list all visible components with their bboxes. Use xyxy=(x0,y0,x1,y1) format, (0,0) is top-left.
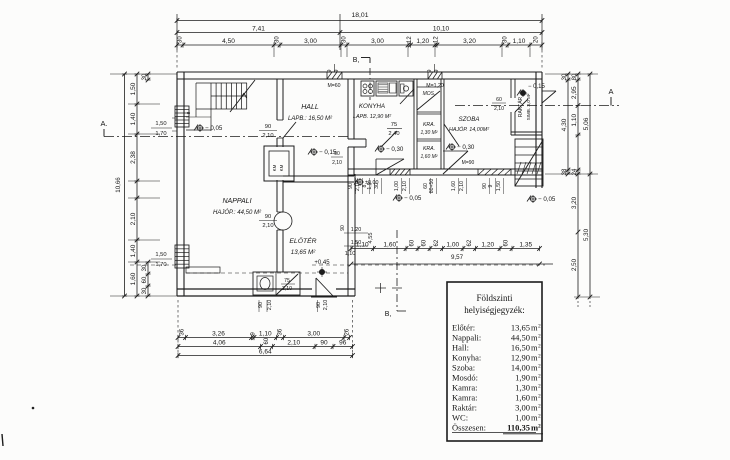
svg-text:2,38: 2,38 xyxy=(130,151,137,164)
svg-text:M=60: M=60 xyxy=(327,83,340,89)
svg-text:3,26: 3,26 xyxy=(212,330,225,337)
svg-text:12: 12 xyxy=(407,36,413,43)
svg-text:60: 60 xyxy=(410,239,416,246)
svg-text:1,20: 1,20 xyxy=(351,227,362,233)
svg-text:1,10: 1,10 xyxy=(345,251,356,257)
svg-text:9: 9 xyxy=(488,184,494,187)
svg-text:NAPPALI: NAPPALI xyxy=(222,198,251,205)
svg-text:2,10: 2,10 xyxy=(402,181,408,191)
svg-text:Hall:: Hall: xyxy=(452,343,469,353)
svg-text:m: m xyxy=(531,323,538,333)
svg-text:Szoba:: Szoba: xyxy=(452,363,475,373)
svg-text:3,00: 3,00 xyxy=(307,330,320,337)
svg-text:2: 2 xyxy=(538,354,541,360)
svg-text:2: 2 xyxy=(538,344,541,350)
svg-text:2: 2 xyxy=(538,334,541,340)
svg-text:10,66: 10,66 xyxy=(115,177,122,193)
svg-text:90: 90 xyxy=(320,339,328,346)
svg-text:B,: B, xyxy=(385,311,392,318)
svg-text:2,10: 2,10 xyxy=(267,300,273,311)
svg-text:2,10: 2,10 xyxy=(262,133,273,139)
svg-text:A: A xyxy=(608,87,613,96)
svg-text:RAKTÁR: RAKTÁR xyxy=(517,96,524,117)
svg-text:1,00: 1,00 xyxy=(446,241,459,248)
svg-text:MOS.: MOS. xyxy=(423,91,436,97)
svg-text:14,00: 14,00 xyxy=(511,363,530,373)
svg-text:36: 36 xyxy=(179,328,185,335)
svg-text:7,41: 7,41 xyxy=(252,25,265,32)
svg-text:4,30: 4,30 xyxy=(561,118,568,131)
svg-text:13,65: 13,65 xyxy=(511,323,530,333)
svg-text:ELŐTÉR: ELŐTÉR xyxy=(289,236,316,245)
svg-text:2,10: 2,10 xyxy=(494,106,504,112)
svg-text:1,10: 1,10 xyxy=(571,114,578,127)
svg-text:2,40: 2,40 xyxy=(388,131,399,137)
svg-text:30: 30 xyxy=(342,36,348,43)
svg-text:1,40: 1,40 xyxy=(130,244,137,257)
svg-text:30: 30 xyxy=(374,183,380,189)
svg-text:Földszinti: Földszinti xyxy=(476,293,513,303)
svg-text:4,06: 4,06 xyxy=(213,339,226,346)
svg-text:3,20: 3,20 xyxy=(463,38,476,45)
svg-text:2,10: 2,10 xyxy=(287,339,300,346)
svg-text:30: 30 xyxy=(142,287,148,294)
svg-text:30: 30 xyxy=(178,36,184,43)
svg-text:60: 60 xyxy=(422,239,428,246)
svg-text:B,: B, xyxy=(353,57,360,64)
svg-text:110,35: 110,35 xyxy=(507,423,530,433)
svg-text:96: 96 xyxy=(339,339,347,346)
svg-text:12,90: 12,90 xyxy=(511,353,530,363)
svg-text:3,00: 3,00 xyxy=(304,38,317,45)
svg-text:30: 30 xyxy=(503,36,509,43)
svg-text:62: 62 xyxy=(467,239,473,246)
svg-text:1,50: 1,50 xyxy=(496,181,502,191)
svg-text:1,60: 1,60 xyxy=(451,181,457,191)
svg-text:1,90: 1,90 xyxy=(515,373,530,383)
svg-text:− 0,05: − 0,05 xyxy=(538,196,556,203)
svg-text:2,10: 2,10 xyxy=(282,286,292,292)
svg-text:4,55: 4,55 xyxy=(368,233,374,244)
svg-text:60: 60 xyxy=(504,239,510,246)
svg-text:1,70: 1,70 xyxy=(155,131,166,137)
svg-text:M=1,20: M=1,20 xyxy=(426,83,444,89)
svg-text:Előtér:: Előtér: xyxy=(452,323,475,333)
svg-text:1,50: 1,50 xyxy=(155,121,166,127)
svg-text:m: m xyxy=(531,413,538,423)
svg-text:2: 2 xyxy=(538,394,541,400)
svg-text:1,9: 1,9 xyxy=(367,182,373,189)
svg-text:1,35: 1,35 xyxy=(519,241,532,248)
svg-text:Mosdó:: Mosdó: xyxy=(452,373,478,383)
svg-text:1,10: 1,10 xyxy=(356,241,369,248)
svg-text:1,50: 1,50 xyxy=(130,82,137,95)
svg-text:LAPB.: 16,50 M²: LAPB.: 16,50 M² xyxy=(288,116,333,122)
svg-text:Raktár:: Raktár: xyxy=(452,403,477,413)
svg-text:90: 90 xyxy=(334,151,340,157)
svg-text:2: 2 xyxy=(538,324,541,330)
svg-text:1,60: 1,60 xyxy=(383,241,396,248)
svg-text:60: 60 xyxy=(142,276,148,283)
svg-text:1,60 M²: 1,60 M² xyxy=(421,154,438,160)
svg-text:5,06: 5,06 xyxy=(583,117,590,130)
svg-text:m: m xyxy=(531,363,538,373)
svg-text:90: 90 xyxy=(316,302,322,308)
svg-text:2: 2 xyxy=(538,364,541,370)
svg-text:1,60: 1,60 xyxy=(515,393,530,403)
svg-text:1,10: 1,10 xyxy=(513,38,526,45)
svg-text:8: 8 xyxy=(186,111,192,114)
svg-text:HALL: HALL xyxy=(301,104,319,111)
svg-text:2: 2 xyxy=(538,404,541,410)
svg-text:− 0,30: − 0,30 xyxy=(386,146,404,153)
svg-text:2,10: 2,10 xyxy=(130,212,137,225)
svg-text:2: 2 xyxy=(538,384,541,390)
svg-text:1,10: 1,10 xyxy=(259,330,272,337)
svg-text:1,30 M²: 1,30 M² xyxy=(421,130,438,136)
svg-text:SZOBA: SZOBA xyxy=(459,116,480,123)
svg-text:13,65 M²: 13,65 M² xyxy=(291,249,316,256)
svg-text:1,30: 1,30 xyxy=(515,383,530,393)
svg-text:1,40: 1,40 xyxy=(130,112,137,125)
svg-text:60: 60 xyxy=(264,337,270,344)
svg-text:m: m xyxy=(531,333,538,343)
svg-text:− 0,05: − 0,05 xyxy=(404,195,422,202)
svg-text:2,10: 2,10 xyxy=(262,223,273,229)
svg-text:10,10: 10,10 xyxy=(433,25,450,32)
svg-text:3,00: 3,00 xyxy=(371,38,384,45)
svg-text:m: m xyxy=(531,383,538,393)
svg-text:2,10: 2,10 xyxy=(459,181,465,191)
svg-text:Kamra:: Kamra: xyxy=(452,383,478,393)
svg-text:2,95: 2,95 xyxy=(571,86,578,99)
svg-text:1,00: 1,00 xyxy=(394,181,400,191)
svg-text:HAJÓP. 14,00M²: HAJÓP. 14,00M² xyxy=(449,126,489,133)
svg-text:9,57: 9,57 xyxy=(451,254,464,261)
svg-text:Nappali:: Nappali: xyxy=(452,333,481,343)
svg-text:2: 2 xyxy=(538,414,541,420)
svg-text:HAJÓP.: 44,50 M²: HAJÓP.: 44,50 M² xyxy=(213,209,262,216)
svg-text:75: 75 xyxy=(284,278,290,284)
svg-text:90: 90 xyxy=(265,214,271,220)
svg-text:WC:: WC: xyxy=(452,413,468,423)
svg-text:90: 90 xyxy=(348,183,354,189)
svg-text:4,50: 4,50 xyxy=(222,38,235,45)
svg-text:1,20: 1,20 xyxy=(481,241,494,248)
svg-text:2: 2 xyxy=(538,374,541,380)
svg-text:2,10: 2,10 xyxy=(323,300,329,311)
svg-text:m: m xyxy=(531,393,538,403)
svg-text:KM: KM xyxy=(279,164,284,171)
svg-text:− 0,30: − 0,30 xyxy=(457,144,475,151)
svg-text:m: m xyxy=(531,403,538,413)
svg-text:44,50: 44,50 xyxy=(511,333,530,343)
svg-text:A.: A. xyxy=(100,119,107,128)
svg-text:m: m xyxy=(531,373,538,383)
svg-text:− 0,05: − 0,05 xyxy=(205,125,223,132)
svg-text:62: 62 xyxy=(434,239,440,246)
svg-text:LAPB. 12,90 M²: LAPB. 12,90 M² xyxy=(353,114,391,120)
svg-text:75: 75 xyxy=(391,122,397,128)
svg-text:90: 90 xyxy=(340,225,346,231)
svg-text:1,00: 1,00 xyxy=(515,413,530,423)
svg-text:m: m xyxy=(531,353,538,363)
svg-text:60: 60 xyxy=(496,97,502,103)
svg-text:SIMB. 3,0 M²: SIMB. 3,0 M² xyxy=(526,93,531,120)
svg-text:12: 12 xyxy=(434,36,440,43)
svg-text:M=90: M=90 xyxy=(462,160,475,166)
svg-text:helyiségjegyzék:: helyiségjegyzék: xyxy=(464,305,524,315)
svg-text:KRA.: KRA. xyxy=(423,122,435,128)
svg-text:26: 26 xyxy=(344,328,350,335)
svg-text:36: 36 xyxy=(278,328,284,335)
svg-text:Összesen:: Összesen: xyxy=(452,423,486,433)
svg-text:2: 2 xyxy=(538,424,541,430)
svg-text:2,10: 2,10 xyxy=(355,181,361,191)
svg-text:1,60: 1,60 xyxy=(130,272,137,285)
svg-text:Konyha:: Konyha: xyxy=(452,353,481,363)
svg-text:2,50: 2,50 xyxy=(571,258,578,271)
svg-text:1,20: 1,20 xyxy=(416,38,429,45)
svg-text:6,64: 6,64 xyxy=(259,348,272,355)
svg-text:20: 20 xyxy=(534,36,540,43)
svg-text:5,30: 5,30 xyxy=(583,228,590,241)
svg-text:3,00: 3,00 xyxy=(515,403,530,413)
svg-text:80+50: 80+50 xyxy=(429,179,435,194)
svg-text:− 0,15: − 0,15 xyxy=(528,84,546,90)
svg-text:KRA.: KRA. xyxy=(423,146,435,152)
svg-text:1,50: 1,50 xyxy=(155,252,166,258)
svg-text:90: 90 xyxy=(265,124,271,130)
svg-text:2,10: 2,10 xyxy=(332,160,342,166)
svg-text:16,50: 16,50 xyxy=(511,343,530,353)
svg-text:3,20: 3,20 xyxy=(571,196,578,209)
svg-text:18,01: 18,01 xyxy=(351,12,368,19)
svg-text:m: m xyxy=(531,343,538,353)
svg-text:KM: KM xyxy=(272,164,277,171)
svg-text:KONYHA: KONYHA xyxy=(359,103,385,110)
svg-text:30: 30 xyxy=(275,36,281,43)
svg-text:Kamra:: Kamra: xyxy=(452,393,478,403)
